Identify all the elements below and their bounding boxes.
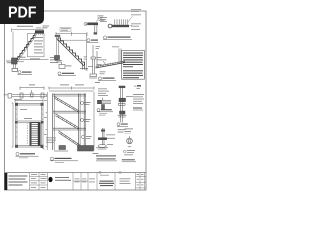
beam elevation texts (4, 85, 36, 100)
title block (5, 173, 147, 191)
stair section label (50, 157, 78, 163)
tall column label (117, 123, 128, 127)
keynote box above stair B (60, 28, 71, 32)
comb label (103, 36, 132, 40)
connection texts (98, 89, 109, 96)
circle detail notes (124, 150, 136, 155)
column detail texts (84, 57, 102, 83)
comb right texts (131, 9, 141, 30)
stair detail A box (top-left) (12, 28, 45, 58)
plan arrow (40, 147, 45, 150)
big stair section (middle-bottom) (46, 87, 94, 151)
ramp texts (100, 47, 120, 75)
stair detail A footing (6, 58, 49, 71)
general notes box (right) (122, 51, 145, 80)
connection label (97, 109, 113, 116)
stair detail B footing (55, 56, 63, 63)
landing detail label (2 lines) (96, 155, 117, 161)
L corner detail (top middle-right) (85, 19, 98, 35)
plan right dark stringer (38, 123, 41, 146)
stair stringer comb detail (top-right) (108, 16, 132, 28)
plan wall hatch ticks (16, 108, 44, 138)
title block left black bar (5, 173, 8, 190)
ramp detail (right-mid) (96, 49, 126, 69)
right notes label (133, 108, 143, 111)
stair flights (55, 97, 81, 148)
flight hatch ticks (57, 98, 78, 145)
stair detail A text in box (17, 26, 43, 60)
plan UP text (20, 109, 32, 119)
F detail label (87, 39, 99, 43)
columns (52, 94, 54, 151)
stair detail B steps (57, 38, 89, 70)
stair detail A top landing (35, 30, 44, 33)
stair plan (bottom-left) (12, 99, 44, 147)
sheet border frame (5, 11, 147, 190)
comb left text (100, 17, 107, 22)
landing detail texts (106, 135, 115, 146)
title block firm text (55, 177, 71, 181)
grid bubble left of L detail (84, 23, 87, 26)
tall column extra notes (118, 129, 126, 132)
right notes cluster (133, 94, 144, 104)
title block drawn-by cells (120, 178, 131, 183)
floors (53, 93, 86, 95)
plan corner posts (15, 103, 44, 148)
tall column flange text (126, 95, 133, 98)
beam elevation detail (left) (8, 87, 47, 99)
L detail leader texts (98, 16, 105, 21)
section base (54, 146, 94, 152)
left notes of section (46, 138, 56, 143)
ramp hatch (97, 60, 124, 68)
stair detail A label (18, 71, 33, 75)
column detail (middle, x~93) (88, 45, 97, 78)
stair section annotations (44, 85, 84, 135)
stair detail A leader text (19, 56, 26, 59)
stair detail B (top-middle) (55, 32, 88, 70)
plan handrail dashed (26, 123, 28, 146)
stair detail A steps diagonal (14, 33, 37, 66)
title block right grid texts (137, 174, 144, 185)
PDF badge (0, 0, 44, 24)
page background (0, 0, 149, 198)
section base note (93, 152, 99, 155)
landing detail (bottom, x~103) (96, 128, 108, 149)
circle detail top text (125, 129, 134, 134)
stair detail B label (58, 72, 76, 76)
title block small cells texts (31, 174, 47, 188)
title block logo dot (48, 177, 52, 182)
stair plan label (16, 152, 39, 158)
title block project title (99, 175, 114, 186)
tall column detail (x~121) (118, 86, 127, 123)
connection detail (right of section, y~100) (97, 98, 111, 110)
small text above ramp left (96, 46, 101, 49)
title block mid cells (75, 179, 96, 183)
stair detail B dim text (43, 26, 50, 29)
circle detail (bottom-right) (127, 136, 133, 147)
plan stair treads (30, 123, 41, 146)
title block revision bubbles (99, 171, 102, 174)
elevation mark near right border (134, 85, 141, 89)
stair detail A landing top text (36, 27, 42, 30)
plan outline (16, 103, 44, 105)
stair detail B secondary footing (59, 62, 65, 69)
stair detail B left texts (50, 57, 58, 63)
title block left texts (9, 176, 28, 186)
svg-text:PDF: PDF (8, 5, 37, 22)
circle detail label (122, 159, 136, 162)
story annotation bubbles (81, 102, 92, 139)
plan left dark stringer (30, 123, 32, 146)
ramp label (98, 77, 116, 81)
stair detail B secondary footing text (66, 65, 72, 68)
